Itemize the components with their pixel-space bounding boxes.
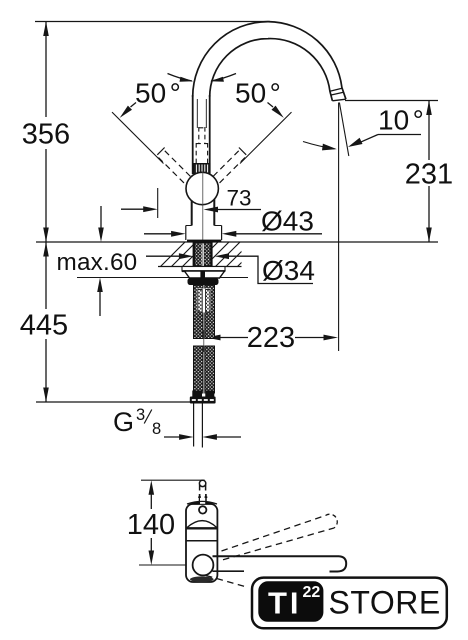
max.60 upper pointer	[100, 206, 102, 230]
base step left	[186, 225, 192, 227]
arrowhead down 445	[43, 388, 49, 403]
side view: screw	[199, 506, 206, 513]
svg-text:22: 22	[303, 584, 321, 601]
swivel collar	[194, 164, 210, 174]
cartridge dashed outline	[196, 127, 207, 166]
mounting nut	[188, 278, 219, 285]
countertop line	[36, 241, 438, 243]
base step right	[214, 225, 221, 227]
flexible hose left upper	[194, 285, 204, 339]
side view: base shadow	[190, 576, 214, 582]
swivel spout dashed right cap	[239, 148, 246, 155]
flexible hose right lower	[205, 346, 215, 393]
svg-text:50°: 50°	[135, 78, 181, 109]
side view: lever end cap	[330, 556, 347, 571]
side view: hose hook circle	[199, 480, 205, 486]
logo backing	[246, 573, 454, 635]
diameter 43 right arrow and shelf	[235, 233, 323, 235]
arrowhead up 356	[43, 22, 49, 37]
73 left arrow	[121, 208, 145, 210]
G3/8 connection tube left edge	[193, 404, 195, 447]
73 right arrow and shelf	[216, 209, 261, 211]
hose-end reference line	[36, 401, 212, 403]
arrowhead down 231	[426, 228, 432, 243]
svg-text:356: 356	[22, 119, 70, 151]
swivel angle arrow left at pipe top	[168, 74, 193, 82]
base left edge	[185, 226, 187, 241]
G3/8 connection tube right edge	[201, 404, 203, 448]
counter underside line	[158, 266, 242, 268]
side view: body band line upper	[186, 527, 217, 529]
svg-text:3: 3	[136, 406, 145, 424]
G3/8 dimension arrows	[164, 436, 181, 438]
svg-text:TI: TI	[268, 585, 302, 620]
pipe inner tube right line	[205, 99, 207, 128]
svg-text:8: 8	[152, 420, 161, 438]
10 deg leader arrow	[348, 138, 363, 147]
handle extent extension line	[157, 188, 159, 218]
side view: top cap lens	[191, 502, 214, 505]
base right edge	[221, 226, 223, 241]
spout curved tube outer edge	[193, 22, 346, 100]
spout pipe left edge	[192, 95, 194, 174]
aerator band line 1	[330, 88, 342, 91]
hose end fittings	[192, 391, 202, 398]
svg-text:Ø34: Ø34	[262, 255, 315, 286]
body below ball left edge	[191, 198, 193, 226]
swivel angle arrow right at pipe top	[211, 74, 236, 82]
side view: handle pivot	[193, 555, 214, 576]
side view: faucet body outline	[186, 504, 217, 582]
dimension 223 right arrow	[295, 337, 325, 339]
arrowhead up 445	[43, 242, 49, 257]
flexible hose left lower	[194, 346, 204, 393]
top reference line (spout apex height)	[35, 21, 270, 23]
side view: aerator studs	[199, 494, 201, 503]
washer plate	[182, 267, 225, 272]
side view: hook legs	[199, 485, 201, 491]
pipe inner tube left line	[196, 99, 198, 128]
spout outlet face	[332, 99, 346, 101]
swivel spout dashed right outline	[213, 151, 246, 186]
svg-text:445: 445	[20, 310, 68, 342]
arrowhead up 231	[426, 101, 432, 116]
side view: body band line lower	[186, 540, 217, 542]
water stream vertical line	[338, 103, 340, 352]
side view: raised lever dashed	[222, 514, 338, 560]
swivel spout dashed left cap	[157, 148, 164, 155]
side view: lowered lever dashed	[206, 576, 245, 587]
ball joint	[186, 172, 218, 204]
diameter 34 right arrow and stepped leader	[228, 256, 314, 283]
dimension 223 left arrow	[219, 337, 248, 339]
svg-text:10°: 10°	[378, 105, 424, 136]
body below ball right edge	[213, 198, 215, 226]
svg-text:223: 223	[247, 322, 295, 354]
svg-text:G: G	[113, 407, 134, 437]
svg-text:50°: 50°	[235, 78, 281, 109]
spout pipe right edge	[209, 95, 211, 174]
dimension line 140	[150, 484, 152, 509]
swivel extent line left	[112, 112, 164, 163]
swivel extent line right	[240, 112, 292, 163]
svg-text:Ø43: Ø43	[261, 206, 314, 237]
base plate	[187, 240, 221, 242]
hose break centerline	[203, 330, 205, 352]
svg-text:140: 140	[127, 509, 175, 541]
dimension line 356	[45, 22, 47, 118]
10 deg angle arc	[303, 142, 335, 149]
svg-text:STORE: STORE	[329, 585, 441, 621]
aerator band line 2	[331, 92, 343, 95]
dimension line 445	[45, 242, 47, 309]
washer cone	[185, 271, 225, 278]
10 deg leader shelf	[378, 134, 421, 136]
spout 10 deg tilt line	[339, 103, 348, 157]
svg-text:231: 231	[405, 159, 453, 191]
leader arrow 50 deg left	[120, 106, 132, 118]
diameter 43 left arrow	[144, 233, 173, 235]
counter cross-section hatching	[145, 232, 283, 282]
dimension line 231	[428, 101, 430, 161]
leader arrow 50 deg right	[272, 106, 284, 118]
TI black box	[258, 581, 323, 622]
spout curved tube inner edge	[210, 39, 333, 101]
side view: dome arc	[187, 521, 217, 528]
TI STORE logo frame	[252, 578, 447, 629]
threaded shank through counter	[194, 242, 212, 267]
svg-text:max.60: max.60	[57, 249, 138, 276]
diameter 34 left arrow	[146, 255, 181, 257]
max.60 lower pointer	[99, 290, 101, 316]
arrowhead down 356	[43, 228, 49, 243]
flexible hose right upper	[205, 285, 215, 339]
max.60 lower reference line	[77, 277, 248, 279]
spout outlet reference line	[345, 100, 438, 102]
svg-text:73: 73	[227, 186, 252, 211]
centerline through ball and body	[202, 171, 204, 242]
connection nipples window	[197, 289, 211, 313]
side view: 140 bottom tick line	[139, 564, 189, 566]
side view: lever top edge	[213, 555, 340, 557]
side view: lever bottom edge	[213, 570, 245, 572]
side view: 140 top tick line	[141, 479, 205, 481]
swivel spout dashed left outline	[159, 151, 192, 186]
